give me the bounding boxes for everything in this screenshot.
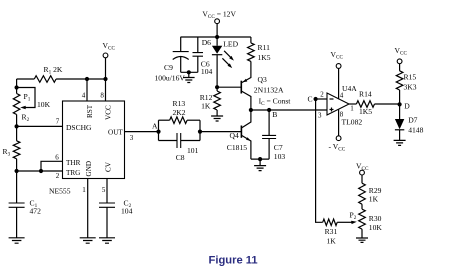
resistor R3 — [16, 126, 18, 140]
resistor R14 — [349, 103, 356, 105]
svg-text:R31: R31 — [325, 227, 338, 236]
svg-text:LED: LED — [223, 39, 238, 48]
ground Q4 — [254, 166, 266, 171]
wire pin3 OUT — [125, 131, 159, 133]
svg-text:TRG: TRG — [66, 169, 80, 177]
svg-text:1: 1 — [350, 104, 354, 112]
svg-text:4: 4 — [82, 92, 86, 100]
node Vcc junction — [215, 35, 219, 39]
svg-text:VCC​: VCC​ — [395, 46, 408, 57]
svg-text:10K: 10K — [369, 223, 383, 232]
svg-text:3: 3 — [318, 112, 322, 120]
ground R12 — [211, 116, 223, 121]
svg-text:R13: R13 — [173, 99, 186, 108]
svg-text:Q3: Q3 — [258, 75, 267, 84]
op-amp U4A TL082 — [327, 93, 349, 115]
node emitter/C7 ground join — [258, 157, 262, 161]
svg-text:CV: CV — [105, 161, 113, 172]
svg-text:NE555: NE555 — [49, 187, 71, 196]
wire Q4 emitter to ground — [251, 158, 269, 160]
wire pin6 THR — [41, 161, 63, 171]
op-amp V- terminal — [338, 109, 340, 136]
svg-text:4: 4 — [340, 92, 344, 100]
resistor R29 — [361, 175, 363, 183]
wire to Q4 base — [200, 131, 241, 133]
svg-text:TL082: TL082 — [342, 117, 363, 126]
wire Vcc down — [216, 24, 218, 37]
svg-text:1K: 1K — [369, 194, 379, 203]
resistor R13 — [159, 119, 170, 121]
svg-text:1K: 1K — [327, 236, 337, 245]
wire top rail — [181, 36, 251, 38]
resistor R15 — [399, 64, 401, 71]
node A — [156, 130, 160, 134]
ground C2 — [99, 238, 115, 243]
resistor R12 — [216, 87, 218, 91]
svg-text:A: A — [152, 121, 158, 130]
svg-text:104: 104 — [201, 67, 213, 76]
svg-text:4148: 4148 — [408, 126, 423, 135]
diode D7 4148 — [399, 104, 401, 119]
svg-text:P2​: P2​ — [350, 211, 357, 222]
svg-text:U4A: U4A — [342, 84, 357, 93]
svg-text:Figure 11: Figure 11 — [209, 255, 258, 267]
svg-text:1: 1 — [82, 186, 86, 194]
svg-text:7: 7 — [56, 117, 60, 125]
svg-text:2: 2 — [56, 172, 60, 180]
wire left rail top — [16, 79, 18, 88]
svg-text:D7: D7 — [408, 116, 417, 125]
svg-text:C9: C9 — [164, 63, 173, 72]
op IC NE555 U box — [63, 101, 125, 179]
svg-text:R11: R11 — [258, 43, 271, 52]
node A-block right — [198, 130, 202, 134]
node pin4 junction — [85, 77, 89, 81]
svg-text:R14: R14 — [359, 90, 372, 99]
ground R30 — [356, 238, 368, 242]
svg-text:R15: R15 — [404, 73, 417, 82]
svg-text:GND: GND — [85, 161, 93, 177]
svg-text:3: 3 — [130, 134, 134, 142]
wire pin4 RST — [86, 79, 88, 101]
svg-text:R2​: R2​ — [22, 113, 30, 124]
wire pin2 — [316, 98, 327, 100]
capacitor C9 electrolytic — [180, 37, 182, 52]
resistor R30 potentiometer — [361, 204, 363, 209]
node P1 top — [15, 85, 19, 89]
svg-text:10K: 10K — [37, 100, 51, 109]
node THR-TRG junction — [39, 169, 43, 173]
svg-text:VCC​: VCC​ — [331, 50, 344, 61]
svg-text:2N1132A: 2N1132A — [254, 85, 284, 94]
svg-text:- VCC​: - VCC​ — [329, 142, 346, 153]
svg-text:IC​ = Const: IC​ = Const — [259, 96, 292, 107]
wire pin5 CV + capacitor C2 — [106, 179, 108, 204]
svg-text:C8: C8 — [176, 153, 185, 162]
node TRG-left — [15, 169, 19, 173]
svg-text:C7: C7 — [274, 143, 283, 152]
capacitor C1 — [16, 171, 18, 203]
svg-text:472: 472 — [30, 207, 42, 216]
resistor R11 — [250, 37, 252, 43]
node Q3 base / LED cathode — [215, 85, 219, 89]
svg-text:D: D — [404, 102, 410, 111]
resistor R31 — [323, 219, 338, 225]
svg-text:R3​: R3​ — [3, 147, 11, 158]
svg-text:B: B — [272, 110, 277, 119]
ground C9 C6 — [183, 78, 195, 83]
node DSCHG — [15, 124, 19, 128]
svg-text:104: 104 — [121, 207, 133, 216]
svg-text:2K2: 2K2 — [173, 108, 186, 117]
svg-text:C1815: C1815 — [227, 143, 247, 152]
node pin8 junction — [103, 77, 107, 81]
transistor Q4 C1815 — [240, 126, 242, 138]
wire pin2 TRG — [17, 170, 63, 172]
wire cap bottoms — [181, 71, 198, 73]
svg-text:3K3: 3K3 — [404, 83, 417, 92]
node B left — [249, 108, 253, 112]
ground pin1 — [80, 238, 96, 243]
svg-text:R30: R30 — [369, 214, 382, 223]
wire pin8 VCC — [105, 58, 107, 101]
svg-text:DSCHG: DSCHG — [66, 123, 92, 132]
svg-text:1K5: 1K5 — [258, 53, 271, 62]
svg-text:6: 6 — [55, 153, 59, 161]
resistor R1 — [17, 78, 35, 80]
capacitor C8 — [159, 140, 201, 142]
ground D7 — [394, 140, 406, 145]
svg-text:C: C — [308, 94, 313, 103]
svg-text:VCC​ = 12V: VCC​ = 12V — [202, 10, 236, 21]
svg-text:VCC​: VCC​ — [103, 41, 116, 52]
svg-text:103: 103 — [274, 152, 286, 161]
capacitor C6 — [197, 37, 199, 53]
transistor Q3 2N1132A — [240, 81, 242, 94]
svg-text:R1​ 2K: R1​ 2K — [44, 65, 63, 76]
svg-text:VCC: VCC — [105, 105, 113, 120]
svg-text:P1​: P1​ — [24, 92, 31, 103]
LED arrow 1 — [224, 51, 232, 59]
svg-text:OUT: OUT — [108, 128, 123, 136]
svg-text:Q4: Q4 — [230, 131, 239, 140]
svg-text:8: 8 — [100, 92, 104, 100]
node cap ground join — [187, 70, 191, 74]
svg-text:100u/16V: 100u/16V — [155, 74, 186, 83]
svg-text:THR: THR — [66, 159, 81, 167]
node C — [314, 97, 318, 101]
LED D6 — [216, 37, 218, 46]
LED arrow 2 — [222, 58, 230, 66]
wire A-block rails — [159, 120, 201, 140]
capacitor C7 — [268, 110, 270, 135]
svg-text:1K: 1K — [201, 102, 211, 111]
wire node B row — [251, 109, 327, 111]
wire pin1 GND — [87, 179, 89, 238]
svg-text:2: 2 — [320, 91, 324, 99]
ground C1 — [9, 238, 25, 243]
svg-text:RST: RST — [86, 104, 94, 118]
wiper arrow to R30 — [337, 221, 352, 223]
svg-text:101: 101 — [187, 146, 199, 155]
svg-text:5: 5 — [102, 186, 106, 194]
potentiometer P1 — [16, 88, 18, 94]
node B (C7) — [267, 108, 271, 112]
svg-text:1K5: 1K5 — [359, 107, 372, 116]
wire C to R31 — [316, 99, 323, 222]
wire pot to node — [16, 115, 18, 127]
wire pin7 DSCHG — [17, 125, 63, 127]
node D — [398, 102, 402, 106]
svg-text:D6: D6 — [202, 38, 211, 47]
